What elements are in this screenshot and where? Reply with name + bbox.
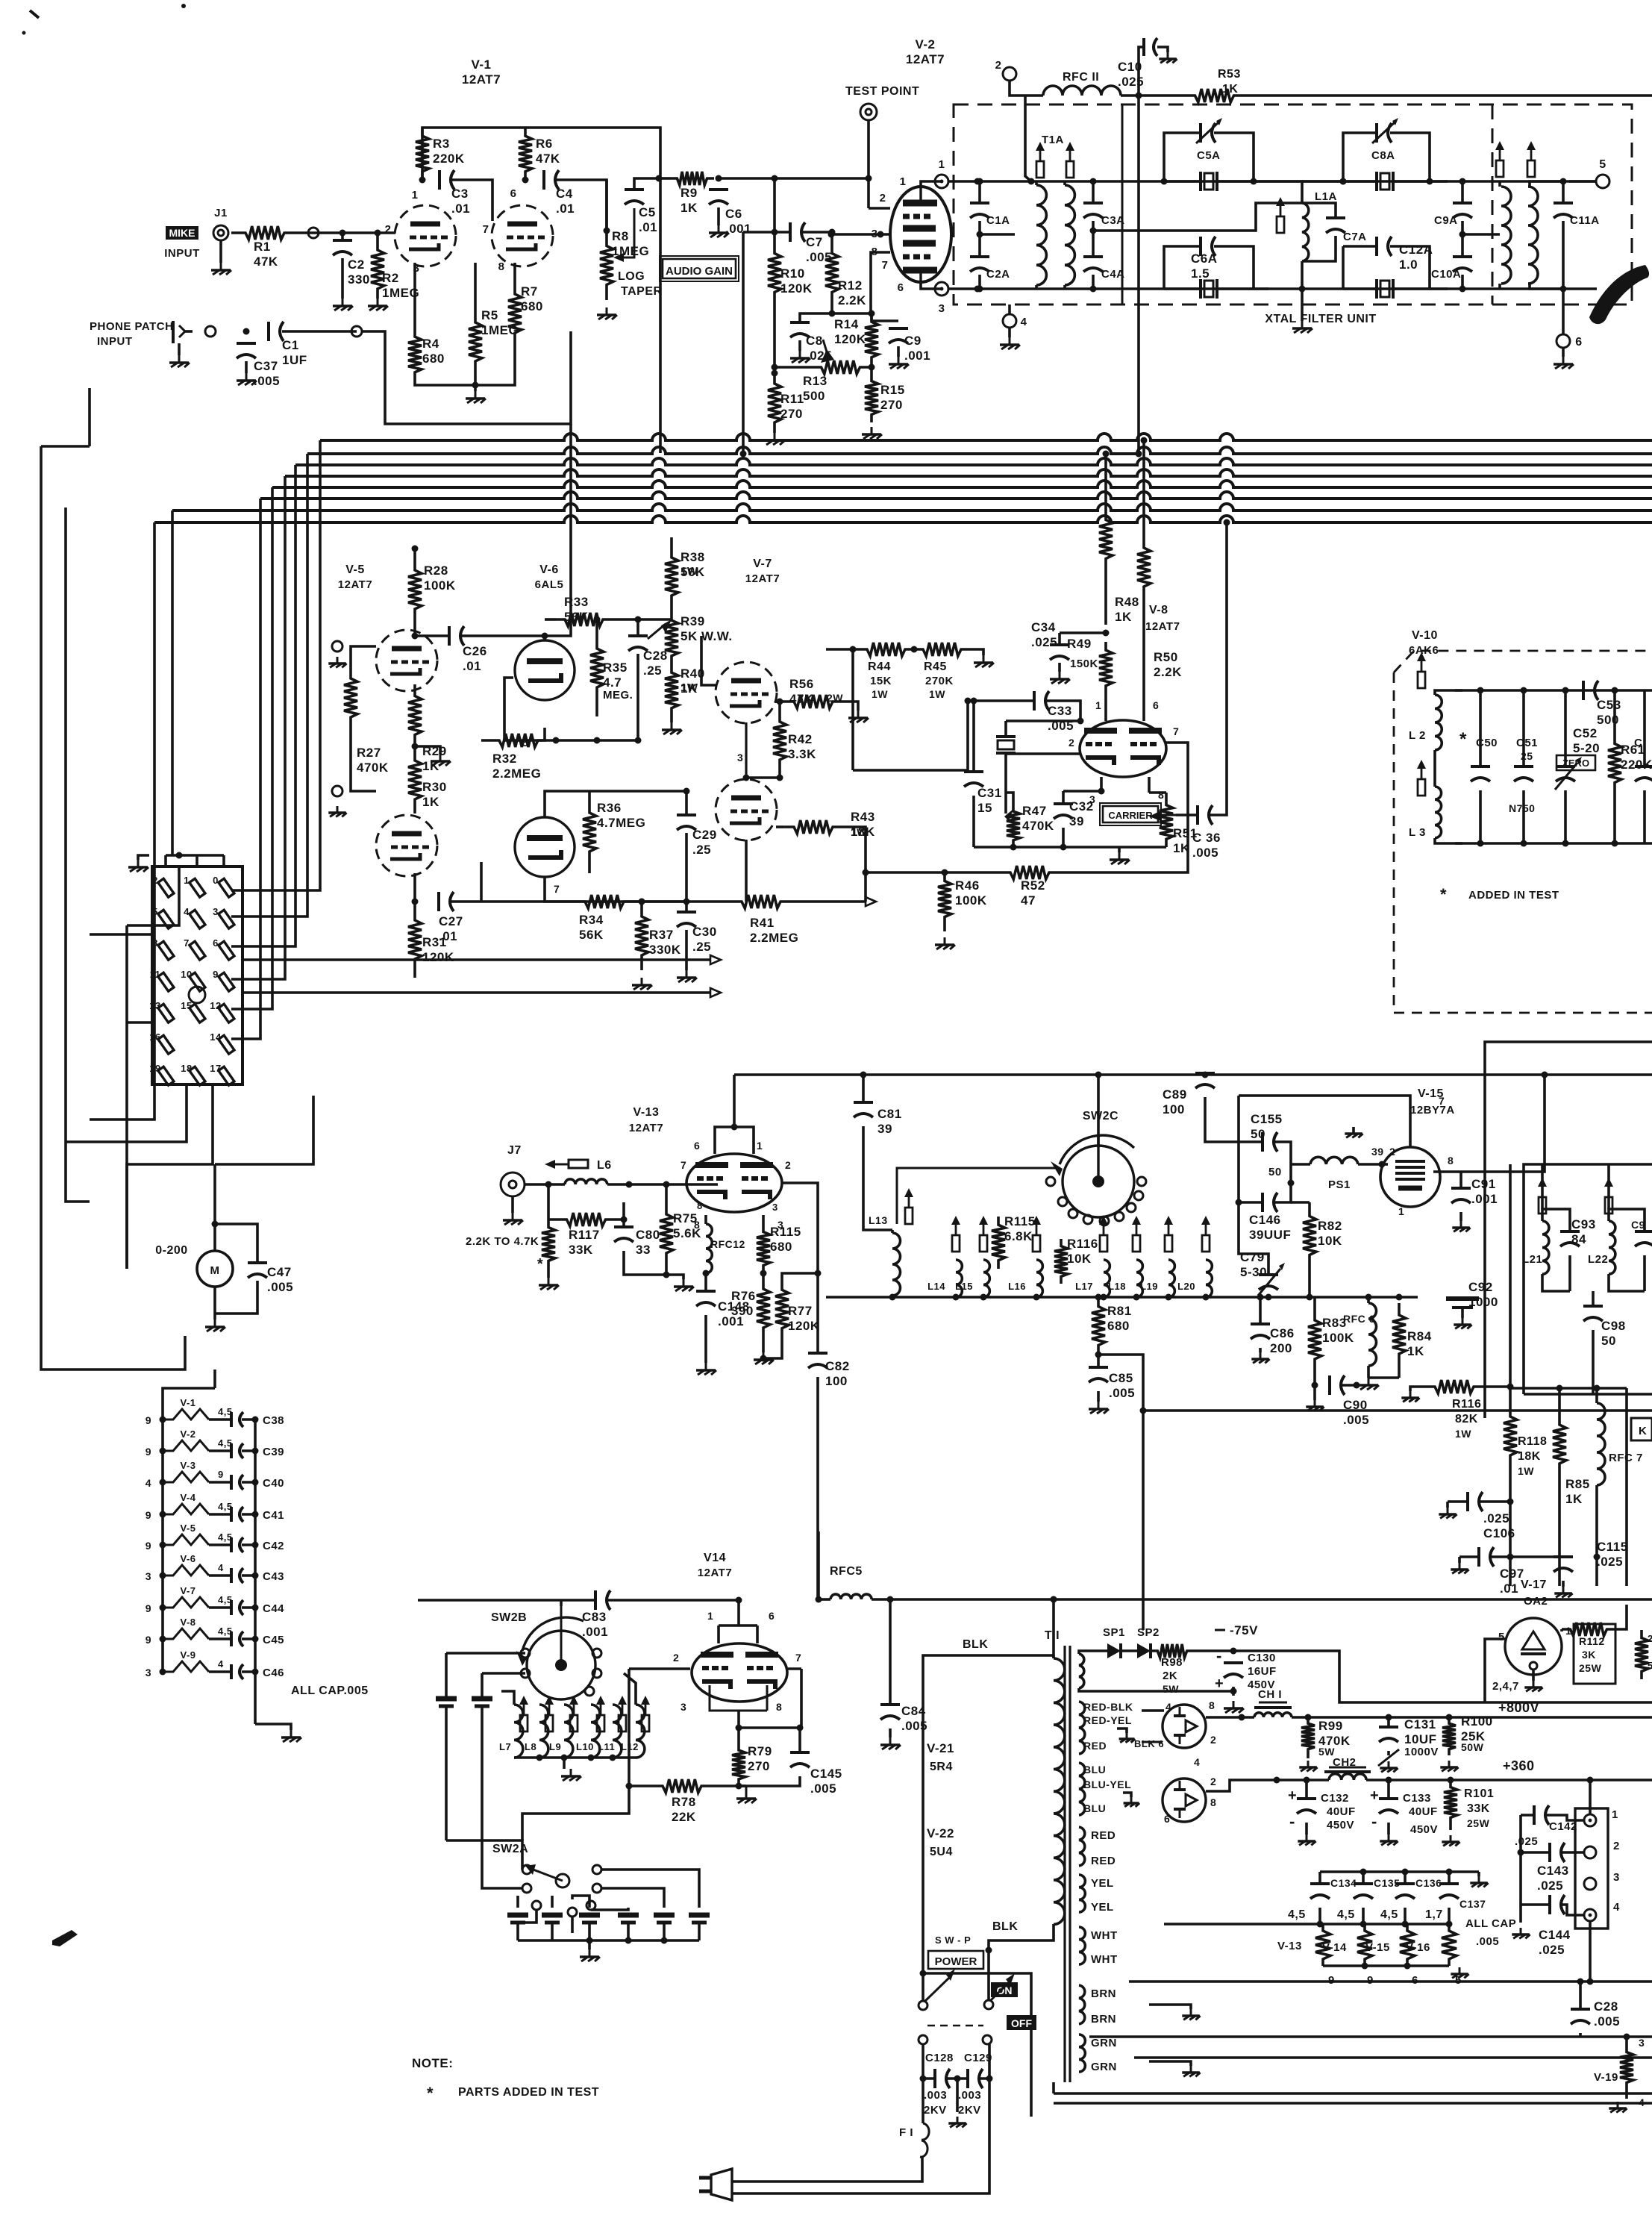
capacitor C94 bbox=[1631, 1219, 1652, 1246]
svg-text:C85: C85 bbox=[1109, 1371, 1133, 1385]
inductor L2 bbox=[1409, 695, 1442, 750]
svg-text:10K: 10K bbox=[1067, 1252, 1092, 1266]
svg-text:C46: C46 bbox=[263, 1667, 284, 1679]
svg-text:82K: 82K bbox=[1455, 1413, 1478, 1425]
T1 winding GRN bbox=[1079, 2035, 1085, 2072]
resistor R84 bbox=[1392, 1303, 1432, 1366]
svg-text:120K: 120K bbox=[788, 1319, 820, 1333]
capacitor C82 bbox=[808, 1353, 850, 1388]
svg-text:270: 270 bbox=[748, 1759, 770, 1773]
svg-text:C43: C43 bbox=[263, 1570, 284, 1583]
svg-text:500: 500 bbox=[803, 389, 825, 403]
wire R2 bbox=[368, 230, 388, 311]
svg-text:.001: .001 bbox=[904, 349, 930, 363]
wire left vertical C bbox=[66, 508, 90, 1202]
wire sp top lead bbox=[1079, 1651, 1107, 1654]
tube V15 label bbox=[1410, 1087, 1455, 1117]
svg-text:V-13: V-13 bbox=[1277, 1940, 1302, 1952]
pin labels v13 bbox=[680, 1140, 791, 1231]
resistor R115c bbox=[992, 1214, 1036, 1269]
svg-text:C155: C155 bbox=[1251, 1112, 1283, 1126]
test point terminal bbox=[860, 104, 877, 120]
svg-text:BLU: BLU bbox=[1083, 1802, 1106, 1814]
wire c79 bbox=[1265, 1294, 1272, 1301]
svg-text:200: 200 bbox=[1270, 1341, 1292, 1355]
ground r75 bbox=[666, 1275, 694, 1291]
rotary switch SW2B bbox=[516, 1606, 595, 1699]
svg-text:TEST POINT: TEST POINT bbox=[845, 85, 919, 98]
svg-text:R7: R7 bbox=[521, 284, 538, 299]
svg-text:C31: C31 bbox=[977, 786, 1002, 800]
svg-text:.025: .025 bbox=[1483, 1511, 1509, 1526]
wire v14 pin2 bbox=[629, 1652, 690, 1786]
fuse F1 bbox=[899, 2079, 929, 2157]
label KEY bbox=[1631, 1418, 1652, 1440]
heater dropper V-16 bbox=[1406, 1924, 1457, 1966]
svg-text:3: 3 bbox=[939, 302, 945, 315]
wire c50 bbox=[1477, 687, 1484, 847]
label T1 bbox=[1045, 1629, 1060, 1642]
svg-text:R39: R39 bbox=[680, 614, 705, 628]
grid return cap a bbox=[328, 641, 346, 667]
resistor R46 bbox=[938, 872, 987, 925]
capacitor C148 bbox=[696, 1291, 750, 1328]
capacitor C10A bbox=[1431, 257, 1472, 281]
wire c7a bbox=[1302, 203, 1336, 261]
svg-text:C81: C81 bbox=[877, 1107, 902, 1121]
label V-1 12AT7 bbox=[462, 57, 501, 87]
node r48r49 bbox=[1103, 630, 1110, 637]
resistor R40 bbox=[665, 664, 705, 716]
svg-text:C1A: C1A bbox=[986, 214, 1010, 227]
svg-text:C132: C132 bbox=[1321, 1792, 1349, 1805]
bank bottom rail bbox=[857, 1294, 1268, 1301]
svg-text:R38: R38 bbox=[680, 550, 705, 564]
xtal filter enclosure bbox=[954, 104, 1632, 305]
svg-text:C4: C4 bbox=[556, 187, 573, 201]
svg-text:680: 680 bbox=[1107, 1319, 1130, 1333]
resistor R2 bbox=[371, 240, 419, 300]
svg-text:C144: C144 bbox=[1539, 1928, 1571, 1942]
ground r76 bbox=[754, 1343, 774, 1364]
svg-text:R52: R52 bbox=[1021, 878, 1045, 893]
resistor V19 dropper bbox=[1594, 2037, 1645, 2108]
svg-text:1: 1 bbox=[707, 1610, 713, 1622]
svg-text:K: K bbox=[1639, 1425, 1647, 1437]
resistor R27 bbox=[344, 657, 389, 775]
wire plate to term1 bbox=[921, 181, 942, 187]
svg-text:2: 2 bbox=[1069, 737, 1074, 749]
svg-text:C37: C37 bbox=[254, 359, 278, 373]
wire l6 out bbox=[607, 1181, 718, 1188]
capacitor C106 bbox=[1468, 1492, 1515, 1540]
wire v22 plate out bbox=[1206, 1777, 1280, 1792]
svg-text:C4A: C4A bbox=[1101, 268, 1125, 281]
svg-text:V-7: V-7 bbox=[753, 558, 772, 570]
wire c90 bbox=[1306, 1382, 1360, 1411]
svg-text:6: 6 bbox=[1164, 1813, 1170, 1825]
svg-text:C8A: C8A bbox=[1371, 149, 1395, 162]
svg-text:L14: L14 bbox=[927, 1281, 945, 1292]
pin2 label bbox=[880, 192, 886, 204]
diode SP2 bbox=[1137, 1626, 1160, 1658]
trimmer L2 bbox=[1417, 652, 1426, 688]
svg-text:ADDED IN TEST: ADDED IN TEST bbox=[1468, 889, 1559, 902]
switch contact 17 bbox=[210, 1063, 234, 1085]
svg-text:V-22: V-22 bbox=[927, 1826, 954, 1840]
resistor R112 bbox=[1562, 1623, 1615, 1684]
wire c131 bbox=[1378, 1714, 1399, 1773]
label ADDED IN TEST bbox=[1440, 885, 1559, 904]
capacitor C6A bbox=[1191, 237, 1218, 281]
resistor R31 bbox=[408, 902, 454, 978]
svg-text:33: 33 bbox=[636, 1243, 651, 1257]
wire mid join bbox=[737, 752, 780, 778]
svg-text:.01: .01 bbox=[451, 202, 470, 216]
connector arrow B bbox=[710, 988, 721, 997]
capacitor C128 bbox=[925, 2052, 954, 2088]
triode V5A bbox=[376, 630, 437, 691]
label NOTE bbox=[412, 2056, 453, 2070]
svg-text:R77: R77 bbox=[788, 1304, 813, 1318]
wire V5B cathode bbox=[412, 873, 419, 905]
resistor R9 bbox=[670, 172, 714, 215]
svg-text:1: 1 bbox=[757, 1140, 763, 1152]
svg-text:CH I: CH I bbox=[1258, 1688, 1282, 1701]
wire sw2a right B bbox=[601, 1888, 664, 1908]
svg-text:47K: 47K bbox=[254, 254, 278, 269]
pin 7 label bbox=[483, 223, 489, 236]
wire v17 in bbox=[1485, 1639, 1505, 1702]
ink blob annotation bbox=[1589, 265, 1649, 324]
capacitor C3A bbox=[1083, 203, 1125, 227]
svg-text:R31: R31 bbox=[422, 935, 447, 949]
svg-text:C10A: C10A bbox=[1431, 268, 1461, 281]
crystal Y2 bbox=[1164, 279, 1268, 299]
switch contact 19 bbox=[149, 1063, 174, 1085]
SW2A contact 5 bbox=[532, 1901, 541, 1910]
wire c5a loop bbox=[1164, 133, 1254, 181]
strip terminal 2 bbox=[1584, 1840, 1620, 1858]
wire rfc-r53 bbox=[1121, 94, 1175, 97]
wire mixer out bbox=[480, 862, 483, 902]
svg-text:V-5: V-5 bbox=[180, 1523, 195, 1534]
svg-text:NOTE:: NOTE: bbox=[412, 2056, 453, 2070]
svg-text:2.2K: 2.2K bbox=[1154, 665, 1182, 679]
svg-text:.25: .25 bbox=[692, 843, 711, 857]
svg-text:R117: R117 bbox=[569, 1228, 600, 1242]
svg-text:.005: .005 bbox=[1109, 1386, 1135, 1400]
bus wire 7 bbox=[172, 504, 1652, 510]
wire V1A cathode bbox=[413, 263, 416, 328]
wire sp bottom lead bbox=[1079, 1688, 1237, 1695]
capacitor C115 bbox=[1554, 1540, 1628, 1572]
resistor R33 bbox=[556, 595, 612, 626]
trimmer L21 bbox=[1538, 1178, 1547, 1214]
filter bottom rail bbox=[977, 287, 1597, 290]
svg-text:1K: 1K bbox=[422, 795, 439, 809]
svg-text:R115: R115 bbox=[770, 1225, 801, 1239]
wire C9 tap bbox=[872, 319, 898, 322]
ground R37 bbox=[632, 978, 652, 990]
resistor R117 bbox=[548, 1213, 624, 1257]
wire t1a bbox=[1028, 178, 1066, 290]
svg-text:V-1: V-1 bbox=[180, 1397, 195, 1408]
svg-text:R116: R116 bbox=[1067, 1237, 1098, 1251]
resistor R75 bbox=[660, 1194, 701, 1273]
capacitor C144 bbox=[1539, 1895, 1571, 1957]
svg-text:R42: R42 bbox=[788, 732, 813, 746]
T1 lead RED A bbox=[1091, 1829, 1116, 1842]
resistor R61 bbox=[1608, 716, 1652, 810]
wire C3 to grid2 bbox=[451, 180, 492, 221]
svg-text:8: 8 bbox=[1158, 789, 1164, 801]
svg-text:C6A: C6A bbox=[1191, 252, 1218, 266]
svg-text:R36: R36 bbox=[597, 801, 622, 815]
svg-text:V-3: V-3 bbox=[180, 1460, 195, 1471]
svg-text:C34: C34 bbox=[1031, 620, 1056, 634]
svg-text:C2A: C2A bbox=[986, 268, 1010, 281]
terminal strip bbox=[1575, 1808, 1608, 1929]
svg-text:+800V: +800V bbox=[1498, 1700, 1539, 1715]
wire r98 c130 bbox=[1194, 1648, 1237, 1655]
svg-text:270K: 270K bbox=[925, 675, 954, 687]
wire c52 bbox=[1562, 687, 1569, 847]
wire c85 bbox=[1089, 1352, 1109, 1414]
svg-text:1: 1 bbox=[1612, 1808, 1618, 1821]
svg-text:3: 3 bbox=[772, 1202, 778, 1213]
resistor R30 bbox=[408, 746, 447, 814]
resistor R52 bbox=[1000, 866, 1060, 908]
svg-text:5R4: 5R4 bbox=[930, 1761, 953, 1773]
label 17 bbox=[1425, 1908, 1443, 1921]
label V-6 6AL5 bbox=[535, 563, 564, 591]
switch pole B bbox=[983, 1973, 1015, 2044]
bus wire 1 bbox=[320, 434, 1652, 440]
svg-text:56K: 56K bbox=[564, 610, 589, 624]
wire blk top bbox=[923, 1655, 1054, 1973]
connector arrow A bbox=[710, 955, 721, 964]
pin labels v21 bbox=[1134, 1699, 1216, 1749]
wire r61 bbox=[1612, 687, 1618, 847]
label V-2 12AT7 bbox=[906, 37, 945, 66]
wire r75 bbox=[665, 1184, 668, 1194]
trimmer T2A L bbox=[1495, 141, 1504, 177]
capacitor C146 bbox=[1249, 1193, 1291, 1242]
wire v13 pins top bbox=[715, 1124, 754, 1155]
jack J7 bbox=[501, 1144, 525, 1196]
switch link dashed bbox=[927, 2025, 983, 2026]
wire r115b bbox=[760, 1202, 778, 1277]
svg-text:L18: L18 bbox=[1108, 1281, 1126, 1292]
wire c106 bbox=[1439, 1499, 1513, 1519]
svg-text:3: 3 bbox=[1639, 2037, 1645, 2049]
SW2B contact 2 bbox=[521, 1669, 530, 1678]
svg-text:V-16: V-16 bbox=[1406, 1941, 1430, 1954]
capacitor C34 bbox=[1031, 620, 1069, 660]
switch contact 0 bbox=[213, 875, 234, 897]
wire v8 pin8 bbox=[1149, 777, 1164, 801]
wire grid entry bbox=[869, 178, 890, 208]
svg-text:R9: R9 bbox=[680, 186, 698, 200]
wire v6 join bbox=[504, 678, 545, 749]
heater V-2 bbox=[146, 1428, 284, 1458]
svg-text:J7: J7 bbox=[507, 1144, 522, 1157]
wire bottom rail C bbox=[1134, 2056, 1652, 2059]
wire patch to grid bbox=[363, 331, 571, 424]
switch contact 18 bbox=[181, 1063, 205, 1085]
svg-text:.025: .025 bbox=[1118, 75, 1144, 89]
wire c9a tap bbox=[1462, 233, 1500, 236]
feedthrough cap B bbox=[472, 1673, 492, 1858]
capacitor C98 bbox=[1583, 1306, 1626, 1348]
wire c31 bbox=[971, 698, 977, 848]
svg-text:GRN: GRN bbox=[1091, 2061, 1117, 2073]
capacitor C2 bbox=[333, 240, 370, 287]
inductor L16 bbox=[1008, 1260, 1042, 1297]
resistor R79 bbox=[732, 1743, 772, 1786]
wire strip1 up bbox=[1589, 1780, 1592, 1814]
svg-text:C146: C146 bbox=[1249, 1213, 1281, 1227]
wire c148 bbox=[696, 1273, 716, 1375]
capacitor C132 polarized bbox=[1288, 1787, 1356, 1832]
svg-text:9: 9 bbox=[146, 1634, 151, 1646]
resistor R14 bbox=[834, 313, 878, 366]
inductor L22 bbox=[1588, 1221, 1615, 1274]
ground rtest bbox=[539, 1269, 559, 1290]
rotary SW2A hub bbox=[525, 1864, 569, 1887]
rotary switch SW2C bbox=[1051, 1134, 1134, 1217]
wire r51 top bbox=[1149, 793, 1166, 797]
triode V1B bbox=[492, 205, 553, 266]
wire ch1 bbox=[1242, 1716, 1652, 1719]
svg-text:3: 3 bbox=[146, 1667, 151, 1679]
svg-text:.005: .005 bbox=[254, 374, 280, 388]
bank link rail bbox=[897, 1168, 1060, 1224]
svg-text:3K: 3K bbox=[1582, 1649, 1596, 1661]
svg-text:8: 8 bbox=[152, 937, 158, 949]
padder rail bbox=[518, 1937, 699, 1944]
bus drop 3 bbox=[231, 465, 295, 946]
svg-text:R44: R44 bbox=[868, 661, 891, 673]
svg-text:V-8: V-8 bbox=[1149, 604, 1168, 616]
wire l2l3 bbox=[1435, 690, 1462, 843]
wire c145 bbox=[739, 1725, 804, 1787]
wire r83 bbox=[1312, 1297, 1318, 1389]
svg-text:T1A: T1A bbox=[1042, 134, 1064, 146]
capacitor C33 bbox=[1034, 691, 1074, 733]
ground C9 bbox=[889, 346, 909, 369]
svg-text:V-1: V-1 bbox=[471, 57, 491, 72]
capacitor C29 bbox=[677, 815, 717, 857]
capacitor C83 bbox=[582, 1590, 610, 1639]
svg-text:0: 0 bbox=[213, 875, 219, 886]
svg-text:12AT7: 12AT7 bbox=[698, 1567, 732, 1579]
svg-text:330K: 330K bbox=[649, 943, 681, 957]
svg-text:C128: C128 bbox=[925, 2052, 954, 2064]
svg-text:1W: 1W bbox=[1455, 1428, 1471, 1440]
svg-text:1: 1 bbox=[184, 875, 190, 886]
svg-text:V-6: V-6 bbox=[180, 1553, 195, 1564]
svg-text:RED: RED bbox=[1083, 1740, 1107, 1752]
svg-text:RED-YEL: RED-YEL bbox=[1083, 1714, 1132, 1726]
svg-text:POWER: POWER bbox=[935, 1955, 977, 1968]
heater V-8 bbox=[146, 1617, 284, 1646]
ground mod bbox=[1110, 847, 1130, 864]
svg-text:12AT7: 12AT7 bbox=[462, 72, 501, 87]
svg-text:.01: .01 bbox=[463, 659, 481, 673]
svg-text:9: 9 bbox=[146, 1446, 151, 1458]
svg-text:R35: R35 bbox=[603, 661, 628, 675]
svg-text:6AL5: 6AL5 bbox=[535, 578, 564, 591]
ac plug bbox=[699, 2169, 735, 2200]
heater cap rail bbox=[1320, 1869, 1479, 1876]
wire v8 grid2 bbox=[1006, 737, 1080, 754]
ground term6 bbox=[1554, 348, 1574, 369]
svg-text:1: 1 bbox=[1398, 1205, 1404, 1217]
wire v13 pin2 right bbox=[782, 1183, 818, 1273]
SW2C contact 5 bbox=[1115, 1212, 1124, 1221]
inductor L17 bbox=[1075, 1260, 1110, 1297]
label V-8 12AT7 bbox=[1145, 604, 1180, 633]
resistor R42 bbox=[773, 713, 816, 769]
wire c132 bbox=[1298, 1780, 1315, 1845]
svg-text:2: 2 bbox=[1613, 1840, 1620, 1852]
resistor R37 bbox=[635, 902, 681, 970]
svg-text:8: 8 bbox=[1448, 1155, 1454, 1167]
resistor R85 bbox=[1553, 1403, 1590, 1506]
resistor R36 bbox=[583, 791, 645, 873]
heater V-3 bbox=[146, 1460, 284, 1490]
svg-text:V-14: V-14 bbox=[1322, 1941, 1347, 1954]
wire r41 bbox=[481, 899, 701, 905]
wire c81 top bbox=[860, 1072, 867, 1103]
potentiometer R13 bbox=[803, 340, 872, 403]
svg-text:6: 6 bbox=[1153, 699, 1159, 711]
svg-text:AUDIO GAIN: AUDIO GAIN bbox=[666, 265, 733, 278]
capacitor C4A bbox=[1083, 257, 1125, 281]
svg-text:GRN: GRN bbox=[1091, 2037, 1117, 2049]
trimmer L20 slug bbox=[1201, 1216, 1210, 1252]
capacitor C92 bbox=[1446, 1280, 1498, 1309]
T1 winding HV1 bbox=[1079, 1702, 1085, 1754]
svg-text:7: 7 bbox=[882, 259, 889, 272]
wire C10 loop bbox=[1139, 47, 1177, 96]
label OFF bbox=[1007, 2015, 1036, 2030]
capacitor C54 bbox=[1634, 737, 1652, 781]
resistor R35 bbox=[590, 619, 633, 716]
svg-text:100K: 100K bbox=[955, 893, 987, 908]
svg-text:2,4,7: 2,4,7 bbox=[1492, 1680, 1519, 1693]
svg-text:L19: L19 bbox=[1140, 1281, 1158, 1292]
wire left margin B bbox=[41, 388, 90, 446]
resistor R76 bbox=[731, 1273, 770, 1343]
svg-text:R79: R79 bbox=[748, 1744, 772, 1758]
label RED-BLK bbox=[1083, 1701, 1133, 1713]
svg-text:330: 330 bbox=[348, 272, 370, 287]
svg-text:+360: +360 bbox=[1503, 1758, 1535, 1773]
wire r46 left bbox=[866, 871, 945, 874]
wire v6 plate bbox=[542, 633, 548, 641]
wire mid right drop bbox=[1625, 1388, 1628, 1586]
wire meter feed bbox=[215, 1096, 313, 1164]
resistor R116 bbox=[1424, 1380, 1485, 1440]
svg-text:C143: C143 bbox=[1537, 1864, 1569, 1878]
wire v7b cath bbox=[745, 840, 748, 902]
wire R14R15 bbox=[869, 364, 875, 374]
wire left margin A bbox=[41, 446, 185, 1370]
label V-7 12AT7 bbox=[745, 558, 780, 585]
